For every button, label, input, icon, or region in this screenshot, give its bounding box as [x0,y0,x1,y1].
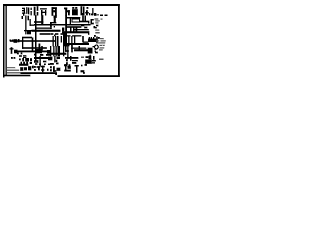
wire v x30 with corner [30,19,34,26]
dashes x84 y64 [81,64,87,66]
border frame left outer [3,4,4,77]
label w [94,13,96,16]
battery B1 [64,64,70,71]
transistor Q1 mark [10,47,14,53]
marks x92 y60 [92,60,95,63]
connector J1 pins [26,7,29,14]
dash marks y64 [35,63,50,65]
border frame right [118,4,120,76]
annotation dash x95 [95,27,97,28]
wire v x82 mid [82,36,83,42]
title block lines gray [7,67,21,73]
ground sym G3 [41,66,45,72]
component blob x14 [14,50,17,53]
wire v x82 upper [82,16,83,22]
annotation gray y45-50 [99,45,105,51]
wire v x71 low [71,45,72,52]
ground sym G4 [75,65,79,73]
wire v x79 short [79,46,80,50]
node dots left y40 [10,40,13,42]
blob x57 [57,68,61,71]
junction blob x48 low [48,57,52,60]
ground sym G1 [20,67,26,70]
node dots x11 y57 [11,57,15,59]
wire v x42 thick [41,15,43,25]
marks x56 y63 [56,63,58,65]
wire v x66 top [65,8,67,16]
wire h y47 [22,47,47,48]
wire h y21 [80,21,89,22]
wire v x85 upper [85,16,86,22]
tick x83 y72 [83,72,85,73]
wire h y29 right [74,29,89,30]
plus mark [85,10,88,15]
wire h y35 partial [65,35,81,36]
tick end y73 [55,74,57,75]
wire h y40 long [10,40,55,41]
annotation gray y20 [95,18,103,23]
dash below bus [81,25,84,26]
fuse F1 [40,8,47,15]
wire v x65 low corner [65,46,66,52]
wire h y72 bottom [21,72,57,74]
component blob x88 low [88,48,92,53]
bus h y58 left [34,57,52,59]
wire v x28 descender [28,16,29,20]
border frame bottom right [58,75,120,77]
wire v x32 [32,38,33,52]
connector J3 head [64,8,67,10]
component cluster x85 y60 [85,60,91,64]
border frame top [3,4,120,6]
IC U1 box [72,19,80,22]
corner sym x37 [37,66,40,70]
wire v x58 thick [58,46,60,56]
wire v x67 low [67,45,68,59]
wire v x39 short [39,44,40,50]
dash x50 y63 [50,63,54,65]
label marks x94 [94,35,100,39]
wire v x35 long [35,15,36,61]
dashed wire right top [100,15,107,16]
wire v x76 mid [76,27,77,32]
resistor R1 blob [36,49,41,53]
wire v x68 [68,36,69,46]
dash marks y54 [34,54,50,56]
wire v x54 low [54,56,55,62]
bus h y50 thick right [74,49,88,51]
terminal strip TB1 [19,55,32,65]
wire h y26 [67,26,81,27]
label F mark [84,27,87,28]
dash x81 y70 [81,70,85,72]
colon x50 [50,66,52,71]
dashed h y33 [40,33,63,34]
component RN1 body [88,39,96,42]
wire v x63 [63,46,64,56]
bus h y30 thick [32,30,61,32]
wire v x55 low [56,46,57,56]
border frame bottom left [3,75,30,76]
wire v x70 mid [70,27,71,32]
junction blob x54 low [54,35,55,36]
colon x34 [34,66,36,71]
wire v x53 low [53,46,54,56]
wire v x61 [61,36,62,42]
step tick x88 [88,22,89,23]
node mark x94 [94,26,96,28]
wire v x70 low [70,56,71,61]
wire v x42 short [41,46,42,50]
annotation ring O [95,45,99,50]
wire v x54 thick [54,16,57,24]
component blob x89 y56 [89,55,92,59]
comma marks [89,13,93,15]
label mark x21 [22,16,23,19]
wire h y37 [22,37,32,38]
contact C1 [91,19,94,24]
tick x18 [18,39,19,42]
wire v x50 [50,46,51,56]
relay K2 body [72,7,78,15]
annotation gray y38-43 [96,38,106,43]
wire v x22 [22,37,23,48]
tick marks y53 [17,53,22,54]
connector pin label 3 [22,8,25,16]
wire v x57 [57,36,58,46]
annotation gray y30 [95,30,99,34]
relay K1 body [34,6,38,15]
wire v x55 [55,36,56,46]
label gray dash [97,14,100,15]
wire h y42 [83,42,88,43]
junction blob x50 [50,23,52,26]
junction blob x48 [47,50,50,54]
component RN1 ticks [89,37,94,39]
wire v x35 tail [35,56,36,61]
node dots x50 [50,26,55,29]
wire h y28 [36,28,50,29]
wire v x70 [70,18,71,24]
wire v x40 low [40,56,41,66]
wire stub j dots [31,8,32,10]
wire v x74 [74,36,75,45]
tick x66 y45 [66,45,67,46]
ground sym G2 [28,66,34,70]
wire v x71 [71,36,72,46]
wire seg x57 y58 [57,57,60,59]
wire v x25 [25,16,26,35]
component marks y61 [34,60,46,62]
bus h y53 thick [50,53,66,55]
bus h y32 thick [62,31,89,33]
wire h y58 right [65,57,78,59]
annotation gray x99 y58 [99,58,104,59]
wire h y21 [34,21,43,22]
wire v x66 thick mid [65,16,67,34]
border frame left inner [6,6,7,76]
tick x93 [93,46,95,47]
wire v x53 [53,36,54,46]
bus h y24 [34,24,90,25]
wire h y22 [50,22,56,23]
equal marks x72 [72,60,78,64]
dark dash x85 y57 [86,56,89,58]
dash x47 [47,69,48,71]
diode D1 blob [14,39,18,42]
corner sym x53 [53,66,56,71]
wire v x97 dark [96,37,97,44]
tick right of bus end [96,25,98,26]
transformer T1 [52,7,57,15]
wire v x73 mid [73,27,74,32]
marks x56 y60 [56,60,57,62]
label dash dark x95 y52 [95,51,98,54]
wire stub x92 [91,8,94,15]
marks x66 y60 [66,59,68,64]
wire v x93 low [93,56,94,60]
wire h y17 [67,17,80,18]
node dot top [87,7,89,9]
wire h y48 right [71,48,86,49]
tick below bar [88,33,89,34]
component X1 cross [24,30,32,34]
contact blob [67,10,69,15]
bus h y43 thick [65,43,89,45]
capacitor C2 bar [63,33,67,46]
junction blob x62 [62,28,64,32]
switch S1 [81,6,85,15]
wire h y51 [17,51,48,53]
gray dash x81 y57 [81,56,84,57]
